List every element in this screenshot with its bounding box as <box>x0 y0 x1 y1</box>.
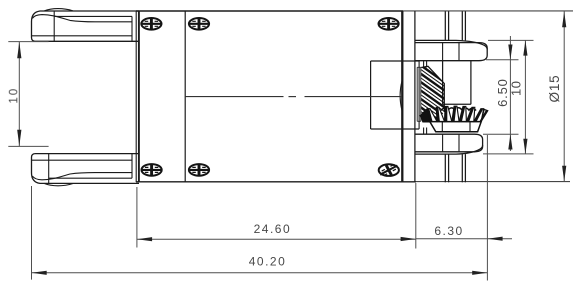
svg-text:40.20: 40.20 <box>249 255 287 269</box>
gearbox right thick wall <box>401 11 403 182</box>
pinion retainer ticks <box>424 61 427 134</box>
svg-text:10: 10 <box>9 87 21 104</box>
dimension 10 (bracket outer width, right) <box>483 40 534 153</box>
output bracket bottom arm <box>415 134 483 154</box>
dimension 40.20 (overall length) <box>32 186 488 280</box>
bevel pinion gear (on motor shaft, teeth facing left) <box>414 61 452 138</box>
gearbox internal partition line <box>184 11 186 182</box>
gearbox top outline <box>136 10 573 12</box>
svg-text:24.60: 24.60 <box>254 222 292 236</box>
gearbox right end plate <box>414 11 416 182</box>
pinion washer strip <box>417 67 421 121</box>
screw S6 (bottom right, rotated head) <box>378 161 401 180</box>
screw S3 (top right) <box>379 18 399 30</box>
output shaft lower section <box>445 154 465 182</box>
output shaft upper section <box>445 11 465 40</box>
gear hub sleeve <box>443 61 471 104</box>
svg-text:10: 10 <box>508 81 523 96</box>
motor can bottom slab <box>32 154 140 186</box>
svg-text:6.30: 6.30 <box>434 224 463 238</box>
gearbox left wall (motor flange, double line) <box>136 11 139 182</box>
screw S1 (top left) <box>141 18 161 30</box>
motor can top slab <box>32 9 140 42</box>
motor shaft end lens on wall <box>400 81 402 111</box>
screw S5 (bottom middle) <box>189 164 209 176</box>
screw S4 (bottom left) <box>141 164 161 176</box>
dimension 6.30 (bracket length) <box>416 135 512 281</box>
dimension D15 (output wheel diameter) <box>562 12 566 182</box>
svg-text:Ø15: Ø15 <box>547 75 562 103</box>
dimension 6.50 (bracket arm gap, right) <box>483 36 519 151</box>
screw S2 (top middle) <box>189 18 209 30</box>
dimension 10 (can slab gap, left) <box>8 42 48 147</box>
output bracket top arm <box>415 40 487 60</box>
gearbox bottom outline <box>136 181 570 183</box>
dimension 24.60 (gearbox length) <box>137 183 416 249</box>
internal gear housing rectangle <box>371 61 420 129</box>
centerline (dash-dot axis) <box>185 96 402 98</box>
bevel crown gear (on output shaft, teeth facing up) <box>420 106 488 132</box>
dimension value labels <box>9 75 563 269</box>
